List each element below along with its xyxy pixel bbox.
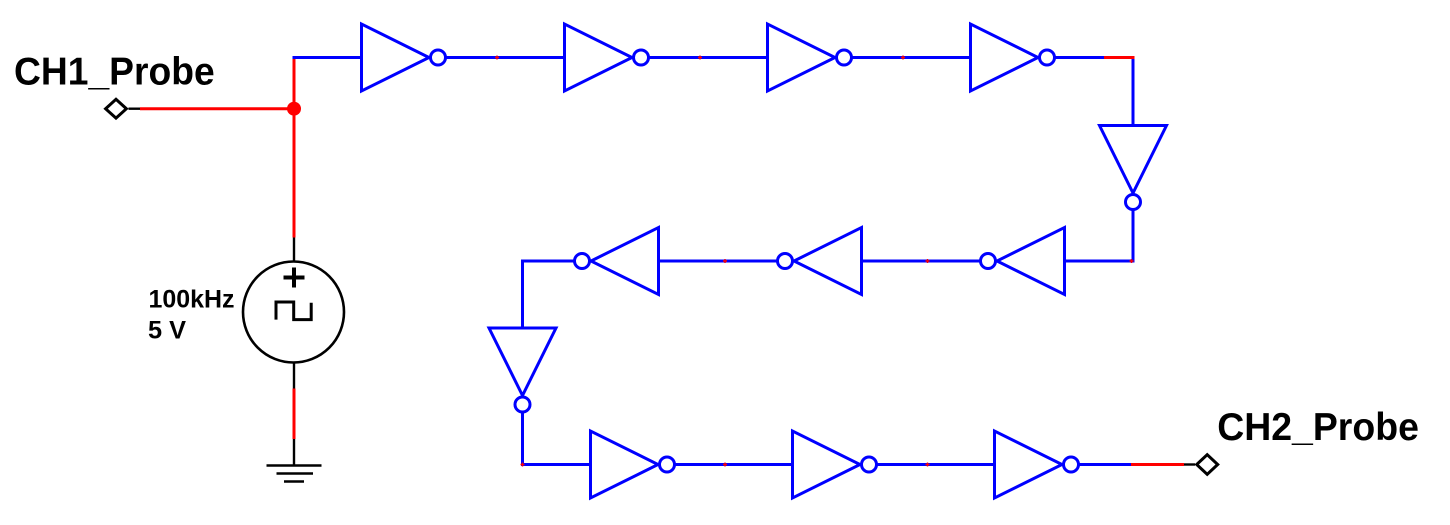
wire (probe CH1 stub, black) [129,107,141,109]
node tick (red) [926,259,930,263]
inverter U4 [971,24,1055,91]
wire U12 output highlighted segment (red) [1131,463,1184,466]
inverter U9 (pointing down) [489,328,556,412]
wire (vertical net, red) [293,56,296,238]
junction dot [287,102,301,116]
node tick (red) [723,463,727,467]
wire corner drop to U9 (blue, vertical) [521,260,524,330]
inverter U5 (pointing down) [1100,126,1167,210]
wire (source to ground, red) [293,389,296,440]
wire corner drop (blue, vertical) [1132,56,1135,127]
svg-text:CH1_Probe: CH1_Probe [14,50,215,93]
node tick (red) [495,56,499,60]
wire U11 to U12 (blue) [877,463,996,466]
wire U3 to U4 (blue) [852,56,972,59]
voltage source VG1 body [243,262,344,363]
node tick (red) [901,56,905,60]
wire U4 output (blue) [1055,56,1106,59]
wire U6 to U7 (blue) [860,260,980,263]
wire U7 to U8 (blue) [657,260,777,263]
wire (CH1 to junction, red) [140,107,296,110]
inverter U8 (pointing left) [575,228,659,295]
wire U10 to U11 (blue) [675,463,794,466]
node tick (red) [698,56,702,60]
svg-text:CH2_Probe: CH2_Probe [1217,406,1419,449]
inverter U11 [793,431,877,498]
ground symbol [267,466,322,482]
svg-text:100kHz: 100kHz [149,286,235,314]
svg-text:5 V: 5 V [148,317,186,345]
node tick at corner (red) [1130,259,1134,263]
wire (ground stub, black) [293,439,295,465]
wire (source bottom stub, black) [293,362,295,390]
probe CH2 (diamond pin) [1197,455,1218,475]
wire U1 to U2 (blue) [446,56,566,59]
node tick (red) [723,259,727,263]
wire (source top stub, black) [293,238,295,263]
inverter U6 (pointing left) [981,228,1065,295]
node tick at corner (red) [521,463,525,467]
wire U9 to U10 (blue) [521,463,592,466]
wire (junction corner to U1 input, blue) [293,56,364,59]
wire (probe CH2 stub, black) [1184,463,1195,465]
inverter U7 (pointing left) [778,228,862,295]
wire U5 to U6 (blue) [1063,260,1135,263]
inverter U3 [768,24,852,91]
voltage source square-wave glyph [276,302,311,320]
wire U9 output (blue, vertical) [521,413,524,467]
inverter U1 [362,24,446,91]
probe CH1 (diamond pin) [106,99,127,118]
wire U2 to U3 (blue) [649,56,769,59]
inverter U10 [591,431,675,498]
node tick (red) [926,463,930,467]
inverter U2 [565,24,649,91]
wire U12 output (blue) [1079,463,1132,466]
wire U5 output (blue, vertical) [1132,210,1135,263]
voltage source plus sign [284,268,305,288]
inverter U12 [995,431,1079,498]
wire U4 output highlighted segment (red) [1104,56,1135,59]
wire U8 output to corner (blue) [521,260,574,263]
